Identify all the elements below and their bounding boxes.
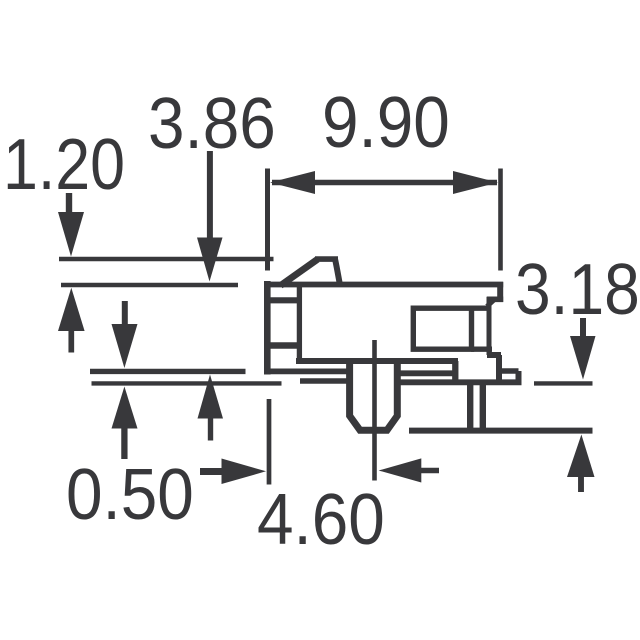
step inner fillet [487,300,494,306]
contact recess box [413,308,471,349]
solder tab right edge [516,371,522,382]
3.18 upper stem [580,318,586,338]
3.18 down arrowhead [570,336,596,380]
reference line B body top level [61,283,238,287]
3.86 lower stem [208,419,213,441]
body right edge top [497,282,503,302]
solder leaf top line right [399,370,454,376]
1.20 up arrowhead [58,288,85,331]
dimension label 4.60 [257,484,385,556]
4.60 left stem [200,468,222,475]
9.90 right arrowhead [453,171,498,194]
dimension label 0.50 [66,459,194,531]
seating plane baseline [409,428,593,434]
3.18 up arrowhead [567,435,595,478]
solder leaf bottom line / foot bottom / tab bottom [399,379,522,385]
latch hook curve [335,259,340,284]
solder tab top [499,368,519,374]
connector body left edge [264,281,271,375]
left flange divider upper [267,297,300,303]
3.86 up arrowhead [198,375,224,419]
pin right edge [480,382,486,430]
recess top extension [471,306,492,311]
latch top edge [315,256,338,262]
reference line A latch top level [59,257,274,262]
connector body top edge [264,282,503,288]
3.86 upper stem [207,151,213,238]
right step lower [487,352,501,358]
recess bottom extension [471,347,492,352]
4.60 right stem [421,468,439,474]
dimension label 3.18 [515,254,640,326]
3.18 top reference line [534,381,593,385]
0.50 down arrowhead [112,324,138,368]
9.90 left extension line [265,169,270,271]
dimension label 3.86 [148,88,276,160]
solder leaf bottom line left [300,378,348,384]
body bottom edge [296,358,458,364]
4.60 left extension line [267,399,272,485]
0.50 up arrowhead [112,387,138,429]
right step upper [487,296,504,302]
pin left edge [467,382,473,430]
inner wall [297,284,302,363]
4.60 left-pointing arrowhead [379,458,422,482]
solder leaf top line left [264,368,348,374]
reference line C leaf top level [90,369,246,374]
0.50 upper stem [122,301,128,325]
reference line D leaf bottom level [92,381,282,385]
1.20 lower stem [68,331,74,353]
9.90 right extension line [498,169,503,271]
channel right wall [487,297,492,355]
foot left edge [452,361,458,382]
3.86 down arrowhead [197,238,223,282]
1.20 down arrowhead [58,212,84,257]
foot right edge [496,355,502,382]
latch diagonal [281,259,318,285]
3.18 lower stem [578,477,584,492]
9.90 dimension line [272,180,497,186]
peg centerline [372,340,377,481]
0.50 lower stem [121,429,127,460]
4.60 right-pointing arrowhead [222,459,267,485]
mounting peg [350,361,398,430]
9.90 left arrowhead [270,171,315,194]
left flange divider lower [267,342,299,349]
dimension label 9.90 [322,87,450,159]
1.20 upper stem [66,193,72,213]
dimension label 1.20 [3,129,125,201]
